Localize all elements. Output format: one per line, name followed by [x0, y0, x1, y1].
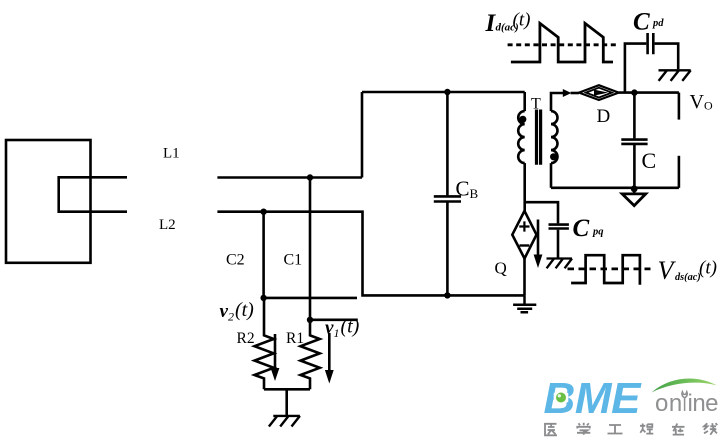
svg-text:C: C — [642, 148, 657, 173]
svg-text:pd: pd — [652, 18, 664, 29]
capacitor C wire top — [633, 93, 636, 139]
label Vds(ac)(t) — [658, 256, 717, 285]
svg-text:C: C — [573, 215, 590, 242]
node CB top — [444, 89, 450, 95]
label CB — [456, 177, 479, 202]
arrow drain current (down, next to Q) — [534, 220, 543, 269]
wire top edge of converter box — [362, 91, 525, 94]
svg-text:(t): (t) — [513, 10, 531, 31]
label v2(t) — [220, 299, 255, 324]
capacitor C1 branch wire — [309, 178, 312, 320]
label L2 — [159, 217, 176, 233]
transformer polarity dot secondary — [550, 153, 557, 160]
label v1(t) — [325, 316, 360, 341]
resistor R1 — [301, 320, 320, 390]
capacitor Cpq plates — [549, 225, 569, 229]
arrow v2 current — [271, 334, 280, 381]
arrow v1 current — [325, 333, 334, 384]
node CB bottom — [444, 292, 450, 298]
svg-text:ds(ac): ds(ac) — [675, 272, 701, 283]
svg-text:L2: L2 — [159, 217, 176, 233]
wire C2 bottom horizontal — [264, 297, 357, 300]
waveform Id dashed average line — [508, 43, 616, 46]
wire C1 bottom horizontal — [310, 318, 358, 321]
svg-text:Q: Q — [495, 259, 507, 278]
transformer T secondary lead top — [551, 93, 563, 111]
label T — [531, 96, 541, 113]
capacitor Cpd plates — [648, 33, 654, 54]
AC source plug stub — [59, 177, 127, 211]
node L2-C2 junction — [260, 209, 266, 215]
capacitor CB wire top — [446, 92, 449, 195]
diode D arrow — [563, 89, 572, 97]
capacitor CB wire bottom — [446, 203, 449, 297]
svg-text:T: T — [531, 96, 541, 113]
svg-text:ine: ine — [688, 390, 719, 417]
node C1 bottom junction — [307, 317, 313, 323]
wire diode to output node — [619, 91, 679, 94]
wire L1 line — [217, 176, 362, 179]
svg-text:C2: C2 — [226, 252, 245, 269]
diode D inner arrow — [594, 90, 608, 96]
capacitor CB plates — [434, 196, 461, 201]
wire secondary bottom bus — [551, 187, 679, 190]
label Q — [495, 259, 507, 278]
label Cpd — [633, 9, 664, 36]
diode D outer diamond — [579, 85, 619, 100]
svg-text:R2: R2 — [237, 330, 255, 347]
capacitor C wire bottom — [633, 145, 636, 189]
capacitor Cpq wire top — [525, 202, 559, 223]
waveform Vds dashed average line — [568, 268, 651, 271]
capacitor Cpd wire right — [655, 44, 679, 70]
wire L2 line into box and bottom edge — [217, 212, 524, 296]
transformer T core bars — [537, 110, 541, 165]
svg-text:C1: C1 — [284, 252, 303, 269]
node C2 bottom junction — [260, 295, 266, 301]
Q minus sign — [520, 244, 530, 246]
label L1 — [163, 146, 180, 162]
Chinese caption 医学工程在线 — [545, 423, 717, 436]
label Cpq — [573, 215, 604, 242]
label C2 — [226, 252, 245, 269]
label Id(ac)(t) — [485, 10, 531, 38]
node secondary ground junction — [631, 185, 638, 192]
transformer T primary lead top — [523, 92, 526, 111]
svg-text:L1: L1 — [163, 146, 180, 162]
wire Vo lower stub — [678, 156, 681, 188]
ground (Cpq, slash style) — [547, 259, 573, 269]
svg-text:on: on — [655, 390, 683, 417]
label R2 — [237, 330, 255, 347]
Q plus sign — [519, 221, 529, 231]
wire resistor bottom bus — [264, 388, 310, 391]
node L1-C1 junction — [307, 174, 313, 180]
waveform Vds(ac)(t) — [571, 255, 640, 285]
svg-text:pq: pq — [592, 227, 604, 238]
wire arrow to diamond — [571, 92, 579, 95]
svg-text:(t): (t) — [699, 258, 717, 279]
wire left edge upper of converter box — [361, 92, 364, 178]
label D — [597, 106, 611, 127]
capacitor Cpq wire bottom — [557, 230, 560, 258]
transformer T primary winding — [518, 111, 524, 163]
label Vo — [690, 91, 713, 113]
wire Q bottom lead — [523, 259, 526, 296]
BME online logo — [544, 374, 719, 423]
ground (Cpd, slash style) — [659, 70, 691, 81]
transformer T secondary winding — [551, 111, 558, 163]
transformer polarity dot primary — [519, 116, 526, 123]
waveform Id(ac)(t) — [511, 23, 613, 62]
ground (output, triangle style) — [622, 189, 646, 206]
label C1 — [284, 252, 303, 269]
ground (R1/R2, slash style) — [269, 416, 300, 427]
ground (Q, 3-bar style) — [513, 295, 536, 312]
capacitor C2 branch wire — [262, 212, 265, 298]
svg-text:D: D — [597, 106, 611, 127]
wire ground stem — [285, 389, 288, 416]
diode D inner diamond — [586, 88, 612, 98]
svg-text:C: C — [633, 9, 650, 36]
node output — [631, 89, 637, 95]
svg-text:v2(t): v2(t) — [220, 299, 255, 324]
AC source block outer rectangle — [6, 140, 91, 263]
MOSFET Q diamond (dependent source) — [512, 211, 536, 259]
label C — [642, 148, 657, 173]
label R1 — [286, 330, 304, 347]
resistor R2 — [255, 298, 274, 389]
capacitor Cpd wire — [625, 44, 646, 93]
transformer T secondary lead bottom — [550, 163, 553, 188]
transformer T primary lead bottom — [523, 163, 526, 211]
wire output top to Vo — [678, 93, 681, 120]
capacitor C plates — [621, 140, 647, 144]
svg-text:R1: R1 — [286, 330, 304, 347]
